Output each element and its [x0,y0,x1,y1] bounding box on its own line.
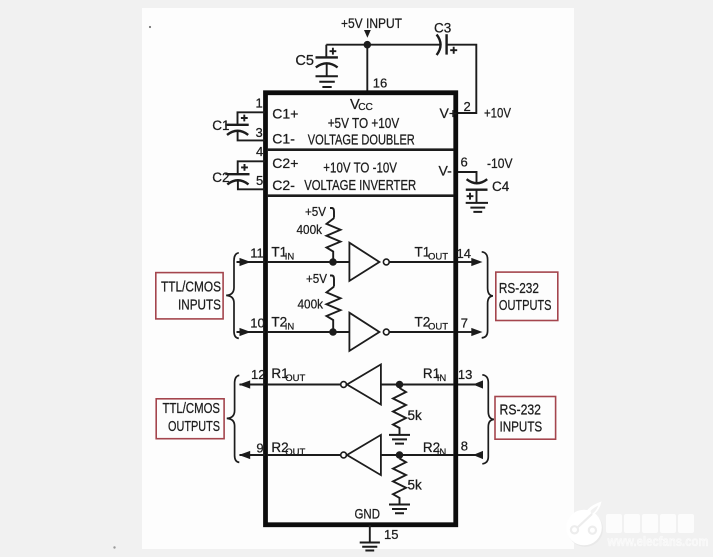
pin 13 input arrow [473,380,483,388]
white schematic canvas [142,8,574,549]
R2 output wire [267,454,341,456]
pin 12 wire [240,384,266,386]
svg-text:12: 12 [251,367,265,382]
svg-text:11: 11 [250,246,263,261]
svg-text:V+: V+ [440,105,458,121]
pin 13 wire [458,384,483,386]
R2 input wire [381,454,454,456]
capacitor C2 [228,173,250,175]
driver buffer T1 [349,243,379,281]
C3 plus sign [450,47,457,54]
svg-text:9: 9 [256,441,263,456]
svg-text:1: 1 [256,96,263,111]
svg-text:C3: C3 [434,21,451,36]
svg-text:C4: C4 [492,179,510,194]
T1 output bubble [383,259,389,265]
pin 9 wire [240,454,266,456]
pin 6 stub [458,172,477,183]
ground (R2 5k) [389,505,410,514]
C1 plus sign [241,115,248,122]
brace TTL/CMOS inputs [226,253,239,339]
svg-text:C1+: C1+ [272,106,298,122]
svg-text:TTL/CMOS: TTL/CMOS [161,280,221,296]
svg-text:15: 15 [384,527,398,542]
pin 7 output arrow [471,328,482,336]
watermark logo circle [566,502,603,547]
T2 input wire [267,331,349,333]
svg-text:+10V TO -10V: +10V TO -10V [323,161,397,177]
T2 output bubble [383,329,389,335]
svg-text:RS-232: RS-232 [500,403,542,419]
pin 12 output arrow [239,380,250,388]
pin 3 stub [238,131,265,140]
pin 10 wire [237,331,266,333]
svg-text:5k: 5k [408,408,423,423]
IC body (MAX232) [266,93,456,525]
svg-text:-10V: -10V [487,156,513,171]
svg-text:8: 8 [461,439,468,454]
pin 5 stub [238,181,265,190]
svg-text:IN: IN [285,252,295,263]
+5V input arrow [364,30,371,38]
watermark chinese text blocks [606,514,694,533]
svg-text:IN: IN [437,373,447,384]
svg-text:IN: IN [285,322,295,333]
wire +5V to R [330,276,334,287]
svg-text:INPUTS: INPUTS [178,298,221,314]
ground (R1 5k) [389,435,410,444]
capacitor C4 [467,179,488,183]
C2 dash [225,173,229,175]
svg-text:V-: V- [439,162,453,178]
ground (pin 15) [360,543,380,551]
svg-text:5k: 5k [408,478,423,493]
svg-text:TTL/CMOS: TTL/CMOS [163,401,221,417]
node: T1 junction dot [329,258,337,266]
svg-text:400k: 400k [298,296,324,311]
svg-text:IN: IN [437,447,447,458]
C4 plus sign [467,193,474,200]
speck artifact top-left [149,26,151,28]
ground (C5) [316,76,338,87]
svg-text:400k: 400k [297,222,323,237]
svg-text:2: 2 [464,99,471,114]
svg-text:4: 4 [256,144,263,159]
pin 4 stub [238,161,265,174]
wire C3 to pin 2 [447,45,477,113]
brace RS-232 inputs [482,375,494,464]
node: R2 junction dot [396,451,404,459]
red box RS-232 INPUTS [495,397,556,440]
capacitor C5 [325,45,327,58]
svg-text:13: 13 [458,367,472,382]
receiver buffer R1 [347,364,381,404]
svg-text:OUTPUTS: OUTPUTS [499,298,552,314]
pin 15 wire [369,525,371,543]
pin 7 wire [458,331,473,333]
brace TTL/CMOS outputs [227,375,240,462]
C1 dash [225,124,229,126]
pin 14 output arrow [471,258,482,266]
svg-text:+5V: +5V [305,204,326,219]
driver buffer T2 [349,313,379,351]
R1 output wire [267,384,341,386]
wire +5V to R [330,208,334,218]
capacitor C3 [437,35,441,56]
svg-text:CC: CC [358,102,373,113]
T1 input wire [267,261,349,263]
svg-text:C1-: C1- [272,130,295,146]
pin 8 input arrow [473,451,483,459]
svg-text:10: 10 [250,316,264,331]
svg-text:C5: C5 [295,53,314,69]
T2 output wire [389,331,454,333]
pin 11 wire [237,261,266,263]
R1 input wire [381,384,454,386]
node: R1 junction dot [396,381,404,389]
red box TTL/CMOS OUTPUTS [156,399,224,439]
R1 input bubble [341,382,347,388]
svg-text:GND: GND [355,505,381,521]
svg-text:5: 5 [256,173,263,188]
wire pin16 vertical [366,45,368,91]
svg-text:OUT: OUT [285,447,305,458]
svg-text:C2+: C2+ [272,155,298,171]
svg-text:16: 16 [373,75,387,90]
svg-text:+5V TO +10V: +5V TO +10V [328,116,400,132]
svg-text:OUT: OUT [285,373,305,384]
svg-text:+10V: +10V [484,106,511,121]
pin 9 output arrow [239,451,250,459]
section divider 2 [268,194,454,197]
svg-text:INPUTS: INPUTS [500,419,543,435]
svg-text:7: 7 [461,316,468,331]
svg-text:VOLTAGE DOUBLER: VOLTAGE DOUBLER [308,133,415,149]
pin 8 wire [458,454,483,456]
pin 11 input arrow [240,258,251,266]
capacitor C1 [227,124,249,126]
svg-text:C2: C2 [212,170,229,185]
svg-text:OUT: OUT [428,252,448,263]
svg-text:VOLTAGE INVERTER: VOLTAGE INVERTER [304,178,416,194]
section divider 1 [268,148,454,151]
R2 input bubble [341,452,347,458]
receiver buffer R2 [347,435,381,475]
speck artifact bottom-left [113,546,115,548]
svg-text:+5V INPUT: +5V INPUT [341,16,402,31]
svg-text:C2-: C2- [272,177,295,193]
svg-text:3: 3 [256,125,263,140]
ground (C4) [466,203,488,212]
svg-text:www.elecfans.com: www.elecfans.com [607,534,709,549]
svg-text:OUT: OUT [428,322,448,333]
C2 plus sign [241,164,248,171]
red box TTL/CMOS INPUTS [156,273,223,319]
svg-text:+5V: +5V [306,271,327,286]
red box RS-232 OUTPUTS [496,272,558,320]
node: T2 junction dot [329,328,337,336]
top supply wire [326,44,440,46]
svg-text:14: 14 [457,246,471,261]
svg-text:6: 6 [461,154,468,169]
svg-text:RS-232: RS-232 [499,281,539,297]
pin 14 wire [458,261,473,263]
pin 1 stub [238,112,266,125]
node: +5V junction dot [364,41,372,49]
pin 10 input arrow [240,328,251,336]
T1 output wire [389,261,454,263]
C5 plus sign [330,48,337,55]
brace RS-232 outputs [482,252,493,338]
svg-text:OUTPUTS: OUTPUTS [168,419,220,435]
